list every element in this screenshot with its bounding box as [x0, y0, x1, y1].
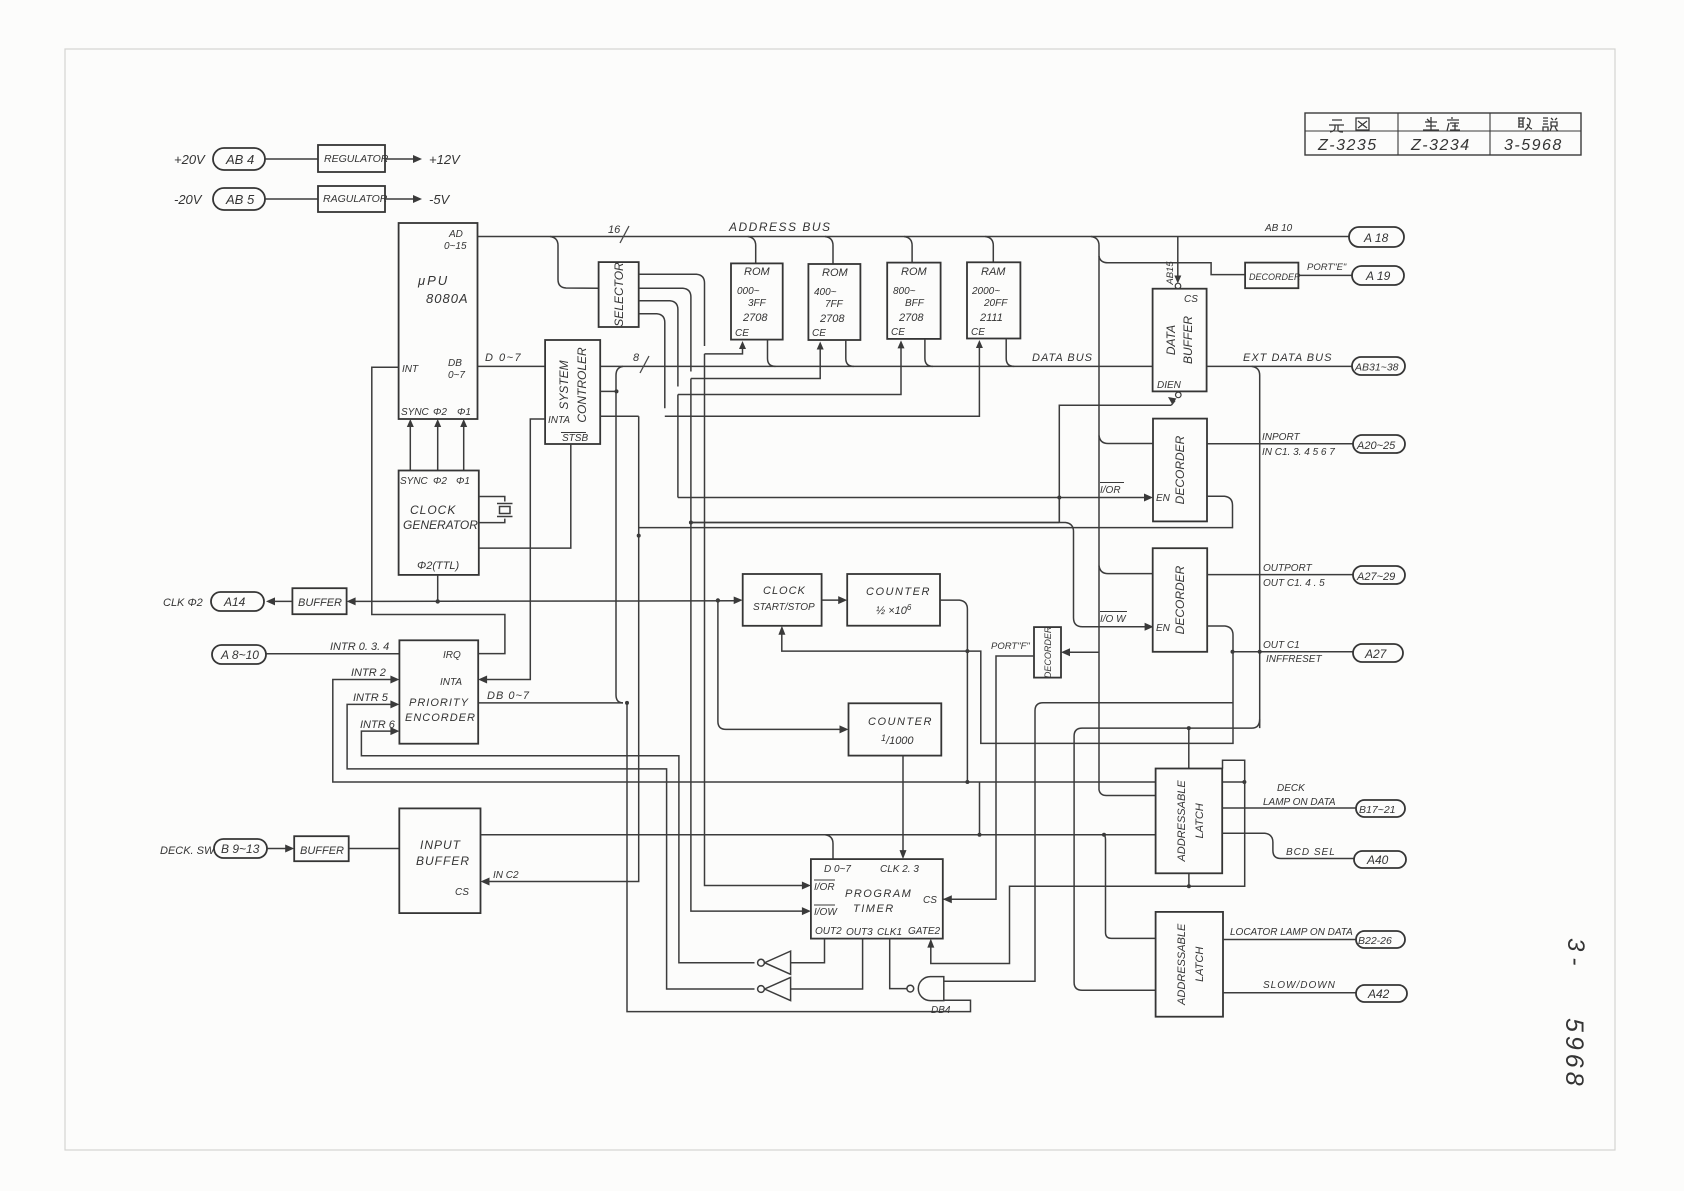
- wire DB0-7 bus to priority encoder: [478, 702, 623, 704]
- svg-text:SYNC: SYNC: [400, 476, 429, 487]
- connector A18: [1349, 227, 1404, 247]
- svg-text:CE: CE: [971, 327, 985, 338]
- ROM data taps to data bus: [768, 339, 1015, 367]
- svg-text:800~: 800~: [893, 286, 916, 297]
- wire OUT3 to inverter2: [791, 939, 863, 989]
- wire latch1 to B17-21: [1222, 807, 1356, 809]
- svg-text:7FF: 7FF: [825, 299, 844, 310]
- svg-text:D 0~7: D 0~7: [824, 864, 851, 875]
- svg-text:ADDRESSABLE: ADDRESSABLE: [1176, 923, 1188, 1006]
- svg-text:Φ2: Φ2: [433, 407, 447, 418]
- wire INTA (system controller to priority encoder): [484, 419, 545, 680]
- svg-text:½ ×106: ½ ×106: [876, 603, 912, 617]
- svg-text:5968: 5968: [1560, 1018, 1588, 1090]
- svg-text:2708: 2708: [742, 312, 768, 324]
- connector A27-29: [1353, 566, 1405, 584]
- address bus: [478, 236, 1350, 238]
- wire ext data bus branch down: [1252, 366, 1260, 728]
- clock generator box: [399, 471, 479, 575]
- wire buffer to A14: [271, 600, 292, 602]
- wire bus drop to ROM1: [748, 237, 756, 264]
- svg-text:CE: CE: [735, 328, 749, 339]
- stamp 3-5968: [1560, 938, 1589, 1090]
- wire clock to counter1: [822, 599, 842, 601]
- NAND gate: [907, 977, 944, 1001]
- svg-text:Z-3235: Z-3235: [1317, 137, 1378, 154]
- wire IOW long line: [691, 523, 1148, 627]
- svg-text:DB 0~7: DB 0~7: [487, 690, 530, 702]
- wire INTR2 loop: [333, 680, 1245, 783]
- inverter1: [758, 951, 791, 974]
- svg-text:INTR 2: INTR 2: [351, 667, 386, 679]
- wire NAND input2 DB4: [627, 703, 971, 1012]
- connector A20-25: [1353, 435, 1405, 453]
- wire DIEN feed: [1059, 405, 1171, 522]
- svg-text:BCD SEL: BCD SEL: [1286, 847, 1336, 858]
- svg-text:3FF: 3FF: [748, 298, 767, 309]
- svg-text:RAGULATOR: RAGULATOR: [323, 193, 388, 205]
- svg-text:INTA: INTA: [548, 415, 570, 426]
- svg-text:EN: EN: [1156, 623, 1171, 634]
- svg-text:Z-3234: Z-3234: [1410, 137, 1471, 154]
- selector CE net2 to ROM2: [639, 288, 691, 371]
- svg-text:ROM: ROM: [822, 267, 849, 279]
- wire CLK1 from NAND output: [890, 939, 907, 989]
- wire IN C2 vertical down to input buffer CS: [487, 416, 639, 881]
- svg-text:CS: CS: [1184, 294, 1198, 305]
- svg-text:CS: CS: [455, 887, 469, 898]
- outport decorder box: [1153, 548, 1208, 652]
- svg-text:8: 8: [633, 352, 640, 364]
- system controller box: [545, 340, 600, 444]
- svg-text:-20V: -20V: [174, 192, 203, 207]
- selector CE net1 to ROM1: [639, 274, 705, 346]
- connector A19: [1352, 266, 1404, 285]
- svg-text:CLK Φ2: CLK Φ2: [163, 597, 203, 609]
- selector CE net4 to RAM: [639, 314, 665, 409]
- clock start/stop box: [743, 574, 822, 626]
- svg-text:EXT DATA BUS: EXT DATA BUS: [1243, 352, 1332, 364]
- wire A8-10 INTR034 to encoder: [266, 653, 399, 655]
- svg-text:μPU: μPU: [417, 273, 449, 288]
- connector A14: [211, 592, 264, 611]
- svg-text:TIMER: TIMER: [853, 903, 895, 915]
- svg-text:Φ2: Φ2: [433, 476, 447, 487]
- port E decorder box: [1245, 263, 1301, 289]
- kanji 図: [1356, 118, 1369, 130]
- svg-text:COUNTER: COUNTER: [866, 586, 931, 598]
- connector B9-13: [214, 839, 267, 858]
- svg-text:Φ1: Φ1: [456, 476, 470, 487]
- svg-text:CE: CE: [891, 327, 905, 338]
- svg-text:A14: A14: [223, 595, 246, 609]
- wire port E to A19: [1298, 274, 1352, 276]
- svg-text:B22-26: B22-26: [1358, 935, 1392, 947]
- ROM1 box: [731, 263, 783, 339]
- connector AB31-38: [1352, 357, 1405, 375]
- selector CE net3 to ROM3: [639, 301, 678, 387]
- wire bus drop to RAM: [985, 237, 993, 263]
- inport decorder box: [1153, 419, 1207, 522]
- kanji 説: [1543, 118, 1558, 131]
- ext data bus: [1207, 365, 1352, 367]
- svg-text:A 18: A 18: [1363, 231, 1389, 245]
- svg-text:INTR 5: INTR 5: [353, 692, 389, 704]
- svg-text:I/OW: I/OW: [814, 907, 838, 918]
- svg-text:2708: 2708: [819, 313, 845, 325]
- wire counter1 column to latch link: [1102, 833, 1106, 837]
- wire regulator to +12V: [385, 158, 414, 160]
- svg-text:CS: CS: [923, 895, 937, 906]
- svg-text:SLOW/DOWN: SLOW/DOWN: [1263, 980, 1336, 991]
- svg-text:2708: 2708: [898, 312, 924, 324]
- svg-text:A20~25: A20~25: [1356, 440, 1396, 452]
- wire right column to port F decorder: [1066, 651, 1099, 653]
- RAM box: [967, 262, 1020, 338]
- svg-text:A27~29: A27~29: [1356, 571, 1395, 583]
- svg-text:+12V: +12V: [429, 152, 461, 167]
- wire address bus to selector: [550, 237, 599, 289]
- svg-text:BUFFER: BUFFER: [416, 854, 470, 868]
- wire NAND input1 from OUT C1 net: [944, 703, 1233, 982]
- svg-text:IRQ: IRQ: [443, 650, 461, 661]
- svg-text:PORT"E": PORT"E": [1307, 262, 1347, 273]
- svg-text:BUFFER: BUFFER: [300, 845, 344, 857]
- wire INTR5 loop from inverter2: [347, 704, 754, 989]
- svg-text:SELECTOR: SELECTOR: [612, 262, 626, 327]
- wire net3 continuation to IOR line: [677, 395, 679, 498]
- svg-text:+20V: +20V: [174, 152, 206, 167]
- wire net2 continuation to program timer IOW: [691, 379, 805, 912]
- svg-text:BFF: BFF: [905, 298, 925, 309]
- svg-text:OUT3: OUT3: [846, 927, 873, 938]
- svg-text:1/1000: 1/1000: [881, 733, 914, 747]
- wire data bus branch down to DB0-7: [616, 366, 623, 703]
- node DB junction: [615, 389, 619, 393]
- wire CLK phi2 line: [351, 600, 738, 603]
- svg-text:LATCH: LATCH: [1194, 947, 1206, 982]
- svg-text:Φ2(TTL): Φ2(TTL): [417, 560, 460, 572]
- svg-text:I/OR: I/OR: [814, 882, 835, 893]
- wire latch2 to A42: [1223, 992, 1356, 994]
- svg-text:D 0~7: D 0~7: [485, 352, 522, 364]
- svg-text:8080A: 8080A: [426, 291, 469, 306]
- svg-text:AB 5: AB 5: [225, 192, 255, 207]
- wire latch1 bottom stub to gate2 net: [1188, 873, 1190, 886]
- wire IOR line to EN: [678, 497, 1148, 499]
- input buffer box: [399, 808, 480, 913]
- wire outport bottom loop to OUT C1 line: [1207, 626, 1233, 652]
- svg-text:DATA: DATA: [1164, 325, 1178, 355]
- wire OUT2 to inverter1: [791, 939, 825, 963]
- svg-text:AB 4: AB 4: [225, 152, 254, 167]
- svg-text:CLK1: CLK1: [877, 927, 902, 938]
- svg-text:START/STOP: START/STOP: [753, 602, 815, 613]
- node IOR junction: [1057, 496, 1061, 500]
- svg-text:B 9~13: B 9~13: [221, 842, 260, 856]
- wire branch down to program timer D0-7: [825, 835, 833, 859]
- wire bus drop to ROM3: [904, 237, 912, 263]
- svg-text:CONTROLER: CONTROLER: [575, 347, 589, 423]
- connector A27: [1353, 644, 1403, 662]
- svg-text:DECK: DECK: [1277, 783, 1306, 794]
- connector AB4: [213, 148, 265, 170]
- svg-text:ROM: ROM: [744, 266, 771, 278]
- svg-text:DECORDER: DECORDER: [1173, 565, 1187, 634]
- counter 1/2x10^6 box: [847, 574, 940, 626]
- svg-text:ADDRESS BUS: ADDRESS BUS: [728, 220, 832, 234]
- svg-text:2111: 2111: [979, 312, 1003, 324]
- svg-text:ADDRESSABLE: ADDRESSABLE: [1176, 780, 1188, 863]
- svg-text:DATA BUS: DATA BUS: [1032, 352, 1093, 364]
- svg-text:REGULATOR: REGULATOR: [324, 153, 389, 165]
- wire outport out to A27-29: [1207, 574, 1353, 576]
- counter 1/1000 box: [849, 703, 942, 755]
- svg-text:PRIORITY: PRIORITY: [409, 697, 469, 709]
- wire OUT C1 line to A27: [1233, 651, 1354, 653]
- svg-text:DECK. SW: DECK. SW: [160, 845, 216, 857]
- svg-text:CE: CE: [812, 328, 826, 339]
- svg-text:IN C2: IN C2: [493, 870, 519, 881]
- svg-text:I/OR: I/OR: [1100, 485, 1121, 496]
- svg-text:PORT"F": PORT"F": [991, 641, 1030, 652]
- svg-text:20FF: 20FF: [983, 298, 1008, 309]
- svg-text:000~: 000~: [737, 286, 760, 297]
- wire inport out to A20-25: [1207, 443, 1353, 445]
- kanji 元: [1329, 120, 1344, 132]
- wire right column branch to inport decorder: [1099, 436, 1153, 444]
- svg-text:IN C1. 3. 4 5 6 7: IN C1. 3. 4 5 6 7: [1262, 447, 1335, 458]
- svg-text:ENCORDER: ENCORDER: [405, 712, 476, 724]
- connector A42: [1356, 985, 1407, 1002]
- connector B22-26: [1356, 931, 1405, 948]
- wire INT loop (uPU INT to IRQ): [372, 367, 505, 653]
- ROM2 box: [808, 264, 860, 340]
- svg-text:A27: A27: [1364, 647, 1388, 661]
- kanji 生: [1423, 117, 1439, 130]
- svg-text:OUT C1: OUT C1: [1263, 640, 1300, 651]
- wire GATE2 net: [931, 760, 1245, 963]
- wire bus drop to ROM2: [825, 237, 833, 265]
- priority encoder box: [399, 640, 478, 743]
- svg-text:AB31~38: AB31~38: [1354, 362, 1399, 374]
- svg-text:2000~: 2000~: [971, 286, 1000, 297]
- svg-text:LOCATOR LAMP ON DATA: LOCATOR LAMP ON DATA: [1230, 927, 1353, 938]
- svg-text:LATCH: LATCH: [1194, 803, 1206, 838]
- ragulator box: [318, 186, 388, 212]
- svg-text:RAM: RAM: [981, 266, 1006, 278]
- svg-text:SYNC: SYNC: [401, 407, 430, 418]
- wire counter1 out down to INTR2: [940, 600, 967, 781]
- wire EXT net line B to latch2: [1074, 719, 1260, 990]
- data bus D0-7 from uPU: [478, 365, 1153, 367]
- svg-text:0~7: 0~7: [448, 370, 465, 381]
- svg-text:-5V: -5V: [429, 192, 451, 207]
- wire phi2 TTL down: [437, 575, 439, 602]
- wire SC output to IN C2 vertical: [600, 415, 639, 417]
- wire right column into latch1: [1099, 790, 1156, 796]
- svg-text:INFFRESET: INFFRESET: [1266, 654, 1322, 665]
- wire AB5 to ragulator: [265, 198, 318, 200]
- svg-text:OUTPORT: OUTPORT: [1263, 563, 1313, 574]
- kanji 産: [1447, 117, 1460, 131]
- wire inport right loop to IN C2 long line: [639, 496, 1233, 527]
- svg-text:DECORDER: DECORDER: [1173, 435, 1187, 504]
- svg-text:AB 10: AB 10: [1264, 223, 1293, 234]
- connector AB5: [213, 188, 265, 210]
- connector A8-10: [212, 645, 266, 664]
- svg-text:0~15: 0~15: [444, 241, 467, 252]
- wire ragulator to -5V: [385, 198, 414, 200]
- svg-text:I/O W: I/O W: [1100, 614, 1127, 625]
- kanji 取: [1518, 118, 1532, 130]
- program timer box: [811, 859, 943, 939]
- svg-text:OUT C1. 4 . 5: OUT C1. 4 . 5: [1263, 578, 1325, 589]
- svg-text:SYSTEM: SYSTEM: [557, 360, 571, 409]
- wire latch1 to A40 BCD SEL: [1222, 833, 1355, 858]
- connector A40: [1354, 851, 1406, 868]
- svg-text:Φ1: Φ1: [457, 407, 471, 418]
- svg-text:GATE2: GATE2: [908, 926, 940, 937]
- wire counter2 to program timer CLK2.3: [902, 756, 904, 853]
- wire INTR2 link down to data line: [979, 782, 981, 835]
- svg-text:DIEN: DIEN: [1157, 380, 1182, 391]
- svg-text:AB15: AB15: [1165, 261, 1176, 286]
- svg-text:GENERATOR: GENERATOR: [403, 518, 478, 532]
- svg-text:CLOCK: CLOCK: [410, 503, 456, 517]
- svg-text:3-5968: 3-5968: [1504, 137, 1563, 154]
- wire buffer to input buffer: [349, 848, 400, 850]
- svg-text:INTR 0. 3. 4: INTR 0. 3. 4: [330, 641, 389, 653]
- wire sync phi2 phi1 (clockgen to uPU): [410, 425, 463, 471]
- svg-text:LAMP ON DATA: LAMP ON DATA: [1263, 797, 1336, 808]
- wire SC output to DB vertical: [600, 390, 616, 392]
- svg-text:A 8~10: A 8~10: [220, 648, 259, 662]
- svg-text:ROM: ROM: [901, 266, 928, 278]
- wire latch1 top stub: [1188, 728, 1190, 768]
- svg-text:A40: A40: [1366, 853, 1389, 867]
- wire B9-13 to buffer: [267, 848, 289, 850]
- wire address bus curve down right column: [1091, 237, 1099, 791]
- svg-text:INPORT: INPORT: [1262, 432, 1300, 443]
- addressable latch 1 box: [1156, 769, 1223, 874]
- selector box: [599, 262, 639, 327]
- svg-text:PROGRAM: PROGRAM: [845, 888, 912, 900]
- ROM3 box: [887, 263, 940, 339]
- inverter2: [758, 977, 791, 1000]
- svg-text:3-: 3-: [1562, 938, 1589, 971]
- svg-text:DB: DB: [448, 358, 462, 369]
- svg-text:DECORDER: DECORDER: [1043, 626, 1053, 678]
- svg-text:400~: 400~: [814, 287, 837, 298]
- deck buffer box: [294, 836, 349, 861]
- data buffer box: [1153, 289, 1207, 392]
- wire IOR-DIEN link: [1058, 498, 1060, 523]
- svg-text:16: 16: [608, 224, 621, 236]
- buffer CLK box: [292, 588, 346, 614]
- node IOW junction: [689, 521, 693, 525]
- svg-text:A42: A42: [1367, 987, 1390, 1001]
- svg-text:STSB: STSB: [562, 433, 588, 444]
- regulator box: [318, 145, 389, 172]
- DIEN terminal: [1176, 392, 1182, 398]
- svg-text:CLOCK: CLOCK: [763, 585, 806, 597]
- wire right column branch to outport decorder: [1099, 566, 1153, 574]
- addressable latch 2 box: [1156, 912, 1223, 1017]
- svg-text:DECORDER: DECORDER: [1249, 272, 1301, 282]
- port F decorder box: [1034, 626, 1061, 678]
- wire STSB to clock generator: [479, 444, 571, 548]
- svg-text:INT: INT: [402, 364, 419, 375]
- wire AB4 to regulator: [265, 158, 318, 160]
- wire input buffer data out east: [481, 834, 1156, 836]
- svg-text:EN: EN: [1156, 493, 1171, 504]
- title table: [1305, 113, 1581, 155]
- svg-text:DB4: DB4: [931, 1005, 951, 1016]
- wire INTR6 loop from inverter1: [361, 731, 754, 963]
- wire branch to port E decorder: [1099, 256, 1245, 275]
- wire AB15 branch to data buffer CS: [1177, 237, 1179, 282]
- svg-text:INTR 6: INTR 6: [360, 719, 396, 731]
- wire latch2 to B22-26: [1223, 939, 1356, 941]
- svg-text:OUT2: OUT2: [815, 926, 842, 937]
- svg-text:INPUT: INPUT: [420, 838, 462, 852]
- connector B17-21: [1356, 800, 1405, 817]
- wire port F out to program timer CS: [943, 656, 1034, 899]
- wire net1 continuation to program timer IOR: [705, 354, 805, 886]
- svg-text:COUNTER: COUNTER: [868, 716, 933, 728]
- svg-text:AD: AD: [448, 229, 463, 240]
- svg-text:BUFFER: BUFFER: [298, 597, 342, 609]
- uPU 8080A block: [399, 223, 478, 419]
- wire clock feedback from OUT C1 net: [782, 632, 1233, 744]
- svg-text:CLK 2. 3: CLK 2. 3: [880, 864, 919, 875]
- svg-text:BUFFER: BUFFER: [1181, 316, 1195, 364]
- svg-text:A 19: A 19: [1365, 269, 1391, 283]
- wire down to counter2: [718, 601, 843, 730]
- crystal: [479, 497, 513, 523]
- svg-text:B17~21: B17~21: [1359, 804, 1396, 816]
- svg-text:INTA: INTA: [440, 677, 462, 688]
